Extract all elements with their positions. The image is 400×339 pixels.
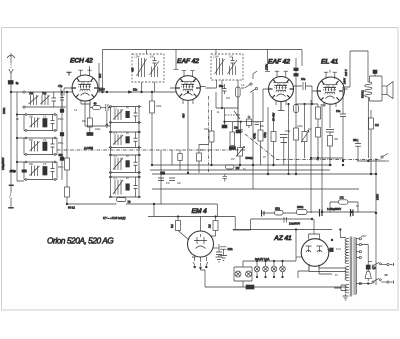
svg-text:0,3M: 0,3M (321, 104, 326, 107)
svg-text:ECH 42: ECH 42 (70, 58, 93, 65)
svg-text:280Ω: 280Ω (297, 205, 303, 209)
terminal plug (262, 210, 265, 217)
switch S4 mains (372, 278, 394, 283)
svg-text:100: 100 (150, 56, 155, 59)
secondary tap top (340, 230, 346, 238)
svg-text:10n: 10n (336, 109, 341, 113)
svg-text:250p: 250p (58, 142, 64, 145)
wire grid1 down from tube (81, 104, 90, 118)
svg-text:60 kΩ: 60 kΩ (68, 206, 75, 210)
left tuned circuit row 1 (17, 92, 66, 108)
svg-text:220V: 220V (361, 235, 367, 238)
capacitor 10n det (234, 122, 243, 148)
wire bank right column x62 (61, 92, 63, 180)
lamps top bus (243, 230, 296, 268)
svg-text:1M: 1M (170, 224, 174, 228)
capacitor 47n mid (158, 178, 164, 181)
power rail y213 (262, 212, 376, 213)
connector blocks (246, 285, 254, 289)
resistor 1M tone (369, 110, 379, 174)
svg-text:110V: 110V (99, 87, 105, 91)
svg-text:17k: 17k (340, 196, 345, 200)
oscillator block 3 (109, 176, 141, 198)
svg-text:250p: 250p (58, 118, 64, 121)
svg-text:0,5M: 0,5M (297, 125, 302, 128)
heater taps to AZ41 (309, 264, 346, 271)
svg-text:100p/500V: 100p/500V (1, 157, 5, 170)
wire top bus right y50 (265, 50, 302, 72)
left tuned block 3 (24, 137, 57, 155)
capacitor 4p antenna (8, 81, 19, 86)
resistor 1W box on bus (226, 165, 240, 170)
resistor 40 box (90, 100, 105, 110)
resistor EM4 right (207, 217, 218, 237)
capacitor electrolytic 2 (351, 209, 354, 217)
capacitor 100p to ground (9, 169, 16, 207)
resistor mid x196.5 (197, 145, 209, 174)
capacitor bank c3 (60, 157, 64, 160)
svg-text:50p: 50p (219, 84, 224, 88)
svg-text:50k: 50k (59, 153, 64, 157)
verticals mid right (253, 92, 322, 189)
svg-text:250: 250 (29, 116, 34, 119)
heater tap B wires (334, 285, 346, 291)
node left column x17 (17, 107, 24, 181)
IF transformer T2 dashed can (211, 54, 243, 80)
switch gang dashes (225, 114, 240, 116)
mains transformer T4 (350, 237, 352, 297)
resistor LA1 (117, 198, 131, 204)
capacitor 250p (105, 104, 111, 111)
fuse (365, 265, 376, 281)
resistor below IF1 (150, 92, 155, 165)
svg-text:40V: 40V (182, 113, 186, 118)
svg-text:100p: 100p (95, 128, 101, 131)
svg-text:(+1450): (+1450) (84, 146, 93, 150)
wire to EL41 grid (296, 86, 318, 107)
ground EM4 cap (220, 256, 227, 261)
capacitor bank c2 (60, 133, 64, 136)
switch S1 gram (241, 71, 258, 93)
resistor EL41 grid (316, 107, 321, 128)
capacitor det blob2 (236, 130, 241, 133)
pilot lamp L1 (254, 260, 260, 278)
svg-text:470k: 470k (285, 130, 291, 133)
bus y189 (152, 188, 359, 190)
resistor 1M afc (229, 122, 235, 150)
svg-text:10n/500V: 10n/500V (289, 222, 300, 226)
resistor 50k (59, 153, 70, 187)
svg-text:275V: 275V (265, 64, 269, 70)
cathode RC EL41 (326, 130, 334, 166)
vertical 240V line (375, 158, 377, 285)
svg-text:EAF 42: EAF 42 (177, 58, 199, 65)
oscillator block 2 (109, 154, 141, 173)
svg-text:10n: 10n (234, 126, 239, 130)
svg-text:700: 700 (29, 92, 34, 96)
svg-text:4V: 4V (335, 274, 338, 277)
svg-text:100: 100 (229, 56, 234, 59)
capacitor bank c1 (60, 109, 64, 112)
primary taps (356, 238, 372, 285)
capacitor 47n anode (336, 89, 346, 161)
capacitor lamp gnd (216, 244, 222, 255)
resistor 270 (275, 207, 284, 216)
svg-text:250: 250 (29, 139, 34, 142)
wire avc drop (284, 104, 289, 174)
winding heater B (345, 285, 349, 293)
wire avc x106 (106, 111, 108, 125)
svg-text:100: 100 (226, 97, 231, 100)
dash-dot gang line (57, 149, 246, 151)
dash-dot diagonal to tone (245, 134, 381, 160)
svg-text:1M: 1M (207, 224, 211, 228)
bottom bus lamps y287 (205, 281, 346, 287)
resistor 0.5M (294, 104, 299, 174)
bus y158 tone (311, 158, 385, 161)
svg-text:1,5M: 1,5M (213, 56, 218, 59)
antenna (7, 53, 15, 81)
resistor 50k det (247, 116, 252, 128)
capacitor 10n/500V (284, 217, 300, 226)
bus y174 (152, 173, 376, 175)
svg-text:300: 300 (334, 138, 339, 141)
wire antenna to junction (10, 84, 12, 185)
svg-text:EM: EM (192, 256, 196, 259)
oscillator block 1 (109, 131, 141, 148)
svg-text:22/n: 22/n (228, 247, 234, 251)
capacitor 1n EM4 (214, 246, 234, 256)
resistor avc mid (209, 110, 214, 165)
svg-text:4,5: 4,5 (372, 266, 376, 270)
svg-text:47p: 47p (58, 84, 63, 88)
AZ41 tube U6 (296, 219, 329, 274)
svg-text:470k: 470k (263, 132, 267, 138)
junction mains (367, 283, 369, 285)
svg-text:EL 41: EL 41 (321, 59, 338, 66)
wire bias bus y204 (67, 204, 217, 217)
capacitor 25n tone (353, 138, 361, 161)
svg-text:500kΩ: 500kΩ (246, 156, 254, 160)
left tuned block 4 (24, 161, 57, 180)
capacitor mid2 (169, 178, 175, 181)
capacitor det blob1 (222, 108, 227, 128)
capacitor det c (255, 122, 260, 125)
potentiometer volume 500k (236, 147, 253, 166)
IF transformer T1 dashed can (131, 54, 165, 82)
resistor EL41 grid 2 (316, 128, 321, 162)
svg-text:52x: 52x (133, 88, 138, 92)
svg-text:244V: 244V (342, 78, 346, 84)
wire EM4 heater to bus (201, 269, 206, 271)
svg-text:240 V: 240 V (344, 69, 348, 76)
bus y229.5 heater (233, 229, 332, 231)
svg-text:25Ω: 25Ω (275, 207, 280, 211)
resistor EM4 left (170, 216, 189, 240)
svg-text:1×50μ/350V: 1×50μ/350V (327, 207, 341, 211)
dash-dot gang vertical (207, 96, 209, 173)
oscillator block 0 (109, 106, 141, 124)
ground lamp (216, 255, 223, 263)
potentiometer tone (301, 103, 309, 158)
value labels texture (16, 56, 367, 278)
ground antenna (8, 207, 14, 209)
svg-text:100p: 100p (10, 169, 16, 173)
decoupling cap top-left of tube (67, 72, 72, 75)
svg-text:EM 4: EM 4 (192, 208, 207, 215)
cathode cap EAF42b (278, 102, 285, 111)
wire osc columns (85, 107, 139, 198)
dial lamp bracket (234, 267, 252, 281)
svg-text:47n: 47n (166, 182, 171, 185)
speaker LS (382, 82, 393, 99)
pilot lamp L2 (263, 260, 269, 278)
resistor 280/10W (297, 205, 308, 215)
svg-text:1W: 1W (236, 166, 240, 170)
capacitor electrolytic 1 (320, 209, 323, 217)
svg-text:100k: 100k (204, 128, 210, 131)
svg-text:465: 465 (131, 67, 135, 72)
wire main grid line y92 (11, 91, 61, 93)
output transformer T3 (343, 51, 382, 158)
wire T2 pins (206, 80, 239, 130)
capacitor 10n coupling (299, 77, 313, 90)
svg-text:100Ω: 100Ω (2, 108, 6, 114)
resistor 0.3M (236, 87, 241, 130)
wire top bus y50 (103, 50, 303, 93)
verticals mid left (161, 150, 172, 204)
wire plate line to EAF42 (98, 91, 176, 93)
ECH42 tube U1 (64, 70, 104, 126)
bus y165 (152, 164, 332, 166)
tone switch S5 (381, 154, 389, 162)
wire corner y230 (233, 219, 251, 230)
bus y170 (150, 169, 330, 171)
capacitor 47p grid (58, 84, 72, 96)
EM4 tube U5 (188, 217, 220, 269)
svg-text:250p: 250p (58, 166, 64, 169)
svg-text:25n: 25n (353, 138, 358, 142)
capacitor 0.1 blobs (294, 68, 298, 71)
wire det row y108 (216, 92, 238, 108)
resistor small x180 (178, 150, 182, 170)
resistor grid osc (87, 118, 92, 133)
wire anode EL41 (330, 70, 343, 89)
svg-text:EAF 42: EAF 42 (268, 59, 290, 66)
svg-text:37-41V: 37-41V (272, 112, 276, 121)
svg-text:5000Ω: 5000Ω (361, 90, 365, 98)
EL41 tube U4 (312, 72, 348, 128)
svg-text:1,5M: 1,5M (134, 56, 139, 59)
junction dots buses (187, 172, 189, 174)
mains feed wire (361, 245, 368, 266)
connector blob y173 (161, 172, 165, 175)
winding HV secondary (345, 239, 349, 264)
svg-text:250: 250 (29, 163, 34, 166)
wire avc column x67 (66, 92, 68, 158)
winding heater A (345, 267, 349, 281)
capacitor 50p (219, 84, 227, 94)
ground cap blob (87, 133, 93, 136)
svg-text:240V: 240V (376, 194, 380, 200)
capacitor 5n (280, 135, 288, 147)
svg-text:700: 700 (42, 92, 47, 96)
resistor 17k (330, 196, 358, 213)
ground transformer (343, 294, 349, 301)
capacitor on y174 (223, 174, 228, 182)
resistor anode load EAF42b (263, 113, 276, 165)
wire det coupling y121.7 (225, 121, 241, 123)
svg-text:KY→+7Ω5 kΩ(1): KY→+7Ω5 kΩ(1) (103, 216, 126, 220)
terminal blob AZ41 anode (330, 248, 334, 252)
pilot lamp L4 (280, 260, 286, 278)
resistor 60k (65, 187, 70, 204)
switch S3 mains (368, 262, 393, 268)
EAF42 tube U2 (170, 71, 206, 173)
svg-text:1M: 1M (375, 123, 379, 127)
left tuned block 2 (24, 114, 57, 132)
svg-text:6,3V: 6,3V (336, 248, 341, 251)
svg-text:AZ 41: AZ 41 (273, 235, 292, 242)
svg-text:1μ: 1μ (128, 200, 131, 204)
wire IF1 pins down (142, 82, 155, 92)
svg-text:~: ~ (385, 273, 388, 278)
bus y219 to AZ41 (251, 218, 312, 220)
svg-text:10n: 10n (301, 77, 306, 81)
wire screen line x296 (295, 58, 297, 104)
svg-text:1M: 1M (231, 158, 234, 161)
wire grid line from pot (225, 89, 264, 122)
winding primary comb (353, 238, 356, 294)
bus y216.5 EM4 (148, 204, 235, 230)
wire tube top right up (89, 66, 91, 71)
EAF42 tube U3 (263, 71, 299, 110)
svg-text:10n: 10n (177, 182, 182, 185)
resistor mid 300k (253, 122, 264, 165)
pilot lamp L3 (271, 260, 277, 278)
svg-text:1M: 1M (308, 128, 311, 131)
svg-text:Orion 520A, 520 AG: Orion 520A, 520 AG (47, 236, 114, 246)
svg-text:100k: 100k (156, 105, 162, 108)
wire AZ41 heaters (298, 271, 332, 278)
